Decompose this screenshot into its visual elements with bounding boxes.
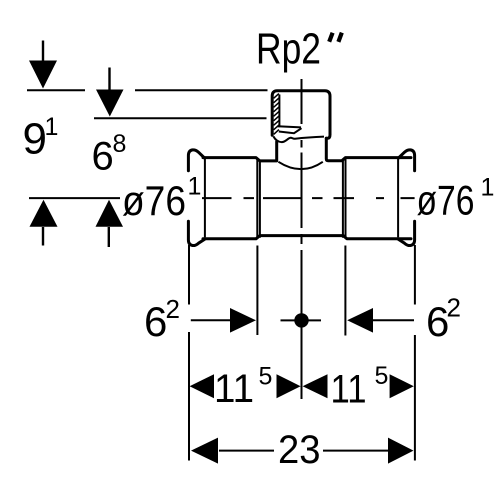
- arrow 9.1 top (down): [42, 41, 44, 63]
- svg-text:5: 5: [259, 363, 273, 391]
- arrowhead 23 left (left-pointing): [191, 438, 218, 464]
- extension line left bead: [256, 246, 258, 336]
- dimension line B (thread depth level): [94, 117, 267, 119]
- dimension line A (branch top level): [27, 89, 268, 91]
- dimension line 6.2 left: [191, 319, 233, 321]
- press zone dot: [294, 313, 308, 327]
- center mark line: [281, 319, 322, 321]
- left press socket lip (bottom half): [188, 221, 204, 245]
- extension line right lip: [414, 245, 416, 461]
- branch threaded collar outline: [272, 91, 330, 139]
- bottom outline: sockets and body: [203, 236, 411, 239]
- svg-text:1: 1: [188, 173, 202, 201]
- arrowhead 6.2 left (right-pointing): [230, 308, 256, 333]
- horizontal centerline left pointer segment: [29, 197, 120, 199]
- svg-text:2: 2: [447, 293, 461, 323]
- right press socket lip (top half): [399, 150, 415, 171]
- svg-text:2: 2: [166, 294, 180, 324]
- top outline: left socket edge, step to body, body top to branch neck: [203, 142, 277, 161]
- arrowhead 23 right (right-pointing): [388, 438, 414, 464]
- arrowhead 11.5 center (left-pointing): [303, 374, 328, 398]
- dimension line 6.2 right: [373, 319, 414, 321]
- thread inner bore line: [278, 95, 280, 128]
- left socket end-face line: [204, 159, 206, 237]
- svg-text:11: 11: [214, 367, 254, 411]
- arrowhead 11.5 far left (left-pointing): [190, 374, 214, 398]
- arrowhead 11.5 center (right-pointing): [277, 374, 301, 398]
- right socket end-face line: [397, 159, 399, 237]
- svg-text:6: 6: [144, 298, 167, 345]
- svg-text:ø76: ø76: [122, 177, 186, 224]
- svg-text:1: 1: [481, 174, 495, 202]
- break-out section wavy line: [273, 136, 324, 142]
- thread chamfer line with hook: [279, 128, 302, 133]
- extension line right bead: [344, 246, 346, 336]
- extension line left lip: [188, 245, 190, 461]
- left bead ring lines: [257, 159, 260, 238]
- double prime strokes: [329, 33, 342, 42]
- right bead ring lines: [343, 159, 346, 238]
- dimension line 23: [219, 450, 390, 452]
- svg-text:9: 9: [23, 115, 47, 164]
- branch neck right wall down into body top edge, right socket top: [326, 138, 411, 161]
- arrowhead 11.5 far right (right-pointing): [390, 374, 414, 398]
- internal thread hatching: [274, 94, 279, 135]
- arrow 9.1 bottom (up): [42, 227, 44, 246]
- left press socket lip (top half): [188, 150, 204, 171]
- svg-text:1: 1: [45, 113, 59, 141]
- arrow 6.8 bottom (up): [108, 227, 110, 247]
- right press socket lip (bottom half): [399, 221, 415, 245]
- svg-text:6: 6: [92, 135, 114, 179]
- svg-text:11: 11: [331, 368, 367, 412]
- svg-text:ø76: ø76: [417, 177, 475, 224]
- vertical centerline dash-dot through branch and body: [301, 79, 303, 399]
- arrow 6.8 top (down): [108, 68, 110, 93]
- svg-text:23: 23: [278, 428, 321, 472]
- horizontal centerline dash-dot through fitting: [202, 197, 415, 199]
- branch-to-body saddle arc: [278, 162, 322, 169]
- svg-text:Rp2: Rp2: [256, 24, 321, 73]
- thread end line: [278, 126, 301, 127]
- arrowhead 6.2 right (left-pointing): [347, 308, 373, 333]
- svg-text:5: 5: [375, 362, 389, 390]
- svg-text:8: 8: [113, 130, 127, 158]
